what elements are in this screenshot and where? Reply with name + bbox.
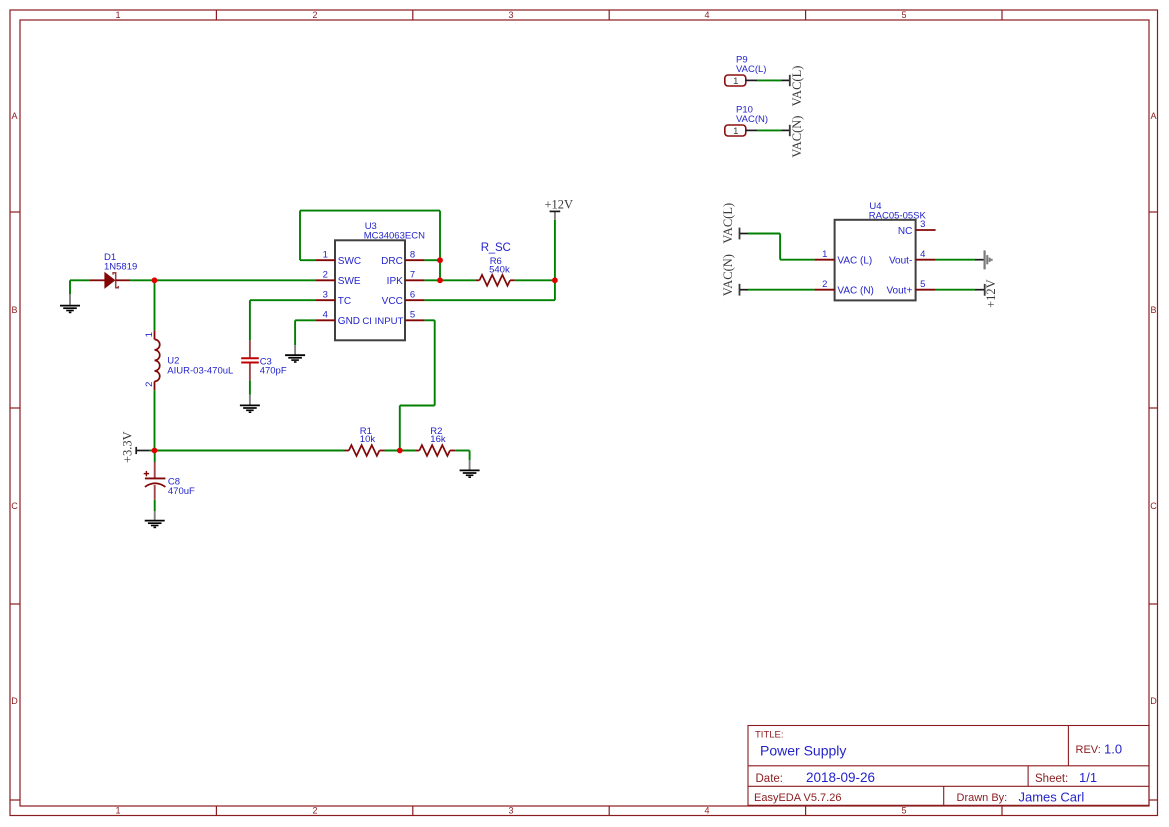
svg-text:D: D xyxy=(11,696,18,706)
svg-text:6: 6 xyxy=(410,289,415,300)
wire U2 to +3.3V rail xyxy=(154,390,156,450)
netport VAC(N) at U4 xyxy=(721,254,748,296)
svg-text:REV:: REV: xyxy=(1076,744,1101,756)
svg-text:VAC(N): VAC(N) xyxy=(736,114,768,125)
svg-text:8: 8 xyxy=(410,249,415,260)
U3 pin 7 IPK xyxy=(405,279,424,281)
svg-text:James Carl: James Carl xyxy=(1019,789,1085,804)
ground G5 at U3 pin4 xyxy=(285,345,305,362)
svg-text:1: 1 xyxy=(733,126,738,137)
svg-text:+3.3V: +3.3V xyxy=(121,431,135,463)
svg-text:R_SC: R_SC xyxy=(481,242,511,254)
wire rail to R1 xyxy=(155,450,345,452)
U4 pin 3 NC xyxy=(916,229,936,231)
svg-text:TC: TC xyxy=(338,296,351,307)
feedback wire node to U3 pin 5 xyxy=(400,320,435,450)
svg-text:VAC(N): VAC(N) xyxy=(721,254,735,296)
wire ground to D1 anode xyxy=(70,279,90,281)
svg-text:NC: NC xyxy=(898,226,912,237)
U3 pin 2 SWE xyxy=(315,279,335,281)
wire node down to U2 xyxy=(154,280,156,330)
IC U3 MC34063ECN xyxy=(315,221,425,340)
svg-text:Power Supply: Power Supply xyxy=(760,742,846,758)
svg-text:VAC (L): VAC (L) xyxy=(837,256,872,267)
svg-text:1: 1 xyxy=(733,76,738,87)
ground G3 below R2 xyxy=(460,460,480,477)
resistor R2 16k xyxy=(415,426,455,456)
svg-text:VAC (N): VAC (N) xyxy=(837,286,873,297)
P10 pin wire xyxy=(746,129,757,131)
diode D1 1N5819 xyxy=(90,252,137,288)
svg-text:DRC: DRC xyxy=(381,256,403,267)
U3 pin 4 GND xyxy=(315,319,335,321)
wire R6 to +12V node xyxy=(515,279,555,281)
connector P9 xyxy=(725,55,804,107)
svg-text:1: 1 xyxy=(323,249,328,260)
netport VAC(N) at P10 xyxy=(782,129,790,131)
netflag +12V top xyxy=(545,198,574,281)
svg-text:4: 4 xyxy=(704,806,709,816)
svg-text:3: 3 xyxy=(323,289,328,300)
junction dot DRC node xyxy=(437,257,443,263)
U4 pin 4 Vout- xyxy=(916,259,936,261)
wire C8 to ground xyxy=(154,500,156,511)
svg-text:C: C xyxy=(11,501,18,511)
svg-text:VAC(L): VAC(L) xyxy=(790,66,804,107)
wire R1 to node xyxy=(385,450,416,452)
wire U3 pin4 to ground xyxy=(295,320,315,345)
junction dot IPK node xyxy=(437,277,443,283)
U3 pin 6 VCC xyxy=(405,299,424,301)
svg-text:5: 5 xyxy=(920,279,925,290)
svg-text:5: 5 xyxy=(901,10,906,20)
svg-text:+12V: +12V xyxy=(545,198,574,212)
svg-text:3: 3 xyxy=(508,10,513,20)
connector P10 xyxy=(725,105,804,158)
wire D1 to node xyxy=(130,279,155,281)
wire VAC(L) to U4 pin1 xyxy=(748,234,815,260)
capacitor C3 470pF xyxy=(241,340,287,380)
ground G1 left of D1 xyxy=(60,280,80,312)
svg-text:10k: 10k xyxy=(360,434,376,445)
svg-text:VAC(L): VAC(L) xyxy=(736,64,766,75)
svg-text:4: 4 xyxy=(323,309,328,320)
ground G4 below C3 xyxy=(240,395,260,412)
svg-text:1/1: 1/1 xyxy=(1079,770,1097,785)
capacitor C8 470uF xyxy=(144,451,195,500)
svg-text:Vout+: Vout+ xyxy=(886,286,912,297)
wire U4 pin4 to ground xyxy=(936,259,984,261)
svg-text:D: D xyxy=(1150,696,1157,706)
svg-text:4: 4 xyxy=(920,249,925,260)
netflag +12V at U4 Vout+ xyxy=(984,279,998,308)
svg-text:4: 4 xyxy=(704,10,709,20)
U4 pin 2 VAC (N) xyxy=(815,289,835,291)
U4 pin 1 VAC (L) xyxy=(815,259,835,261)
svg-text:2: 2 xyxy=(822,279,827,290)
svg-text:5: 5 xyxy=(901,806,906,816)
svg-text:EasyEDA V5.7.26: EasyEDA V5.7.26 xyxy=(754,792,841,804)
ground G2 below C8 xyxy=(145,511,165,527)
svg-text:1: 1 xyxy=(115,806,120,816)
inductor U2 AIUR-03-470uL xyxy=(144,331,233,391)
wire U4 pin5 to +12V xyxy=(936,289,984,291)
svg-text:2: 2 xyxy=(312,806,317,816)
svg-text:7: 7 xyxy=(410,269,415,280)
svg-text:1.0: 1.0 xyxy=(1104,742,1122,757)
netport VAC(L) at U4 xyxy=(721,203,748,244)
junction dot R1/R2 feedback node xyxy=(397,448,403,454)
wire U3 pin8 to node xyxy=(424,259,440,261)
svg-text:B: B xyxy=(11,305,17,315)
svg-text:SWC: SWC xyxy=(338,256,361,267)
svg-text:A: A xyxy=(1150,111,1156,121)
wire P10 to VAC(N) port xyxy=(757,129,782,131)
wire U3 pin7 to R6 xyxy=(424,279,475,281)
wire VAC(N) to U4 pin2 xyxy=(748,289,815,291)
U4 pin 5 Vout+ xyxy=(916,289,936,291)
wire U3 pin3 to C3 xyxy=(250,300,316,340)
svg-text:TITLE:: TITLE: xyxy=(755,730,784,741)
resistor R1 10k xyxy=(345,426,385,456)
junction dot +12V node xyxy=(552,277,558,283)
TITLEBLOCK xyxy=(748,726,1149,806)
svg-text:1: 1 xyxy=(144,332,155,337)
svg-text:470uF: 470uF xyxy=(168,486,195,497)
svg-text:470pF: 470pF xyxy=(260,365,287,376)
svg-text:Vout-: Vout- xyxy=(889,256,912,267)
junction dot D1/U2 node xyxy=(152,277,158,283)
svg-text:C: C xyxy=(1150,501,1157,511)
svg-text:3: 3 xyxy=(920,219,925,230)
U3 pin 3 TC xyxy=(315,299,335,301)
svg-text:16k: 16k xyxy=(430,434,446,445)
svg-text:IPK: IPK xyxy=(387,276,403,287)
netport VAC(L) at P9 xyxy=(782,79,790,81)
module U4 RAC05-05SK xyxy=(815,201,936,300)
U3 pin 1 SWC xyxy=(315,259,335,261)
wire U3 pin1 loop to DRC node xyxy=(300,211,440,281)
svg-text:AIUR-03-470uL: AIUR-03-470uL xyxy=(167,366,233,377)
svg-text:A: A xyxy=(11,111,17,121)
U3 pin 8 DRC xyxy=(405,259,424,261)
svg-text:Date:: Date: xyxy=(756,773,784,785)
svg-text:3: 3 xyxy=(508,806,513,816)
wire P9 to VAC(L) port xyxy=(757,79,782,81)
svg-text:Sheet:: Sheet: xyxy=(1035,773,1068,785)
svg-text:2: 2 xyxy=(312,10,317,20)
ground (gray, right-facing) at U4 Vout- xyxy=(985,250,992,269)
svg-text:B: B xyxy=(1150,305,1156,315)
svg-text:5: 5 xyxy=(410,309,415,320)
svg-text:2: 2 xyxy=(323,269,328,280)
wire node to U3 pin 2 xyxy=(155,279,316,281)
svg-text:CI INPUT: CI INPUT xyxy=(362,316,403,327)
svg-text:1N5819: 1N5819 xyxy=(104,262,137,273)
U3 pin 5 CI INPUT xyxy=(405,319,424,321)
svg-text:1: 1 xyxy=(822,249,827,260)
netflag +3.3V xyxy=(121,431,155,463)
resistor R6 540k R_SC xyxy=(475,242,515,286)
svg-text:1: 1 xyxy=(115,10,120,20)
wire R2 to ground xyxy=(455,451,470,461)
svg-text:+12V: +12V xyxy=(984,279,998,308)
svg-text:2018-09-26: 2018-09-26 xyxy=(806,770,875,785)
svg-text:Drawn By:: Drawn By: xyxy=(957,792,1008,804)
wire C3 to ground xyxy=(249,380,251,394)
svg-text:VAC(L): VAC(L) xyxy=(721,203,735,244)
wire node down and to U3 pin6 VCC xyxy=(424,280,555,300)
svg-text:2: 2 xyxy=(144,382,155,387)
svg-text:VAC(N): VAC(N) xyxy=(790,116,804,158)
svg-text:VCC: VCC xyxy=(382,296,403,307)
P9 pin wire xyxy=(746,79,757,81)
svg-text:GND: GND xyxy=(338,316,360,327)
svg-text:SWE: SWE xyxy=(338,276,361,287)
junction dot +3.3V/C8 node xyxy=(152,448,158,454)
